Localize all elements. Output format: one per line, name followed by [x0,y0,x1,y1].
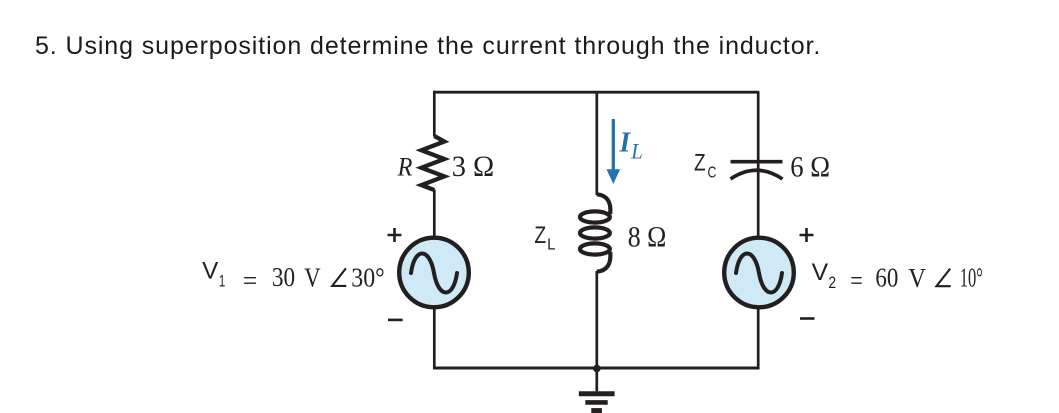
svg-text:1: 1 [219,273,225,291]
svg-text:V: V [202,258,218,285]
svg-text:2: 2 [828,274,836,292]
svg-text:=: = [243,265,257,295]
svg-text:L: L [547,236,556,253]
svg-text:R: R [397,153,413,182]
svg-text:8 Ω: 8 Ω [628,221,667,254]
svg-text:3 Ω: 3 Ω [452,150,495,183]
svg-text:V: V [304,263,321,293]
svg-text:10°: 10° [960,263,983,293]
svg-text:C: C [708,164,717,181]
svg-text:60: 60 [875,263,898,293]
svg-text:Z: Z [534,222,546,249]
svg-text:30°: 30° [351,262,384,292]
svg-text:=: = [850,266,863,296]
svg-text:V: V [812,259,829,286]
svg-text:Z: Z [694,149,706,176]
svg-text:V: V [908,263,926,293]
svg-text:6 Ω: 6 Ω [790,151,830,184]
svg-text:I: I [619,128,632,159]
svg-text:30: 30 [272,262,295,292]
svg-text:L: L [630,139,642,164]
